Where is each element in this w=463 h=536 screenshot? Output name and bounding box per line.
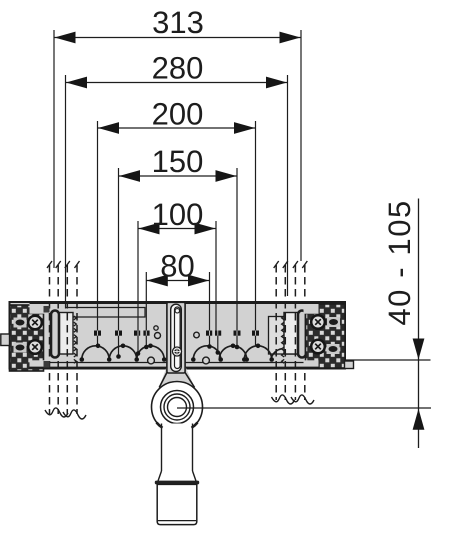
- svg-text:200: 200: [152, 96, 204, 131]
- stubs from marks to arcs: [98, 336, 256, 357]
- drain center leader line: [177, 407, 431, 409]
- dimension 150 line: [119, 175, 238, 177]
- slot top ring: [175, 309, 179, 313]
- svg-text:80: 80: [160, 249, 194, 284]
- dimension 100 extension lines: [137, 221, 139, 331]
- mounting rail body: [1, 261, 354, 419]
- supply pipe right 1 (dashed): [276, 265, 285, 400]
- slide slot: [175, 307, 181, 369]
- dimension 80 extension lines: [145, 272, 147, 331]
- right bracket capsule: [298, 311, 306, 358]
- down arrow: [413, 339, 425, 360]
- small index circles: [154, 326, 158, 330]
- drain pipe: [158, 424, 196, 482]
- slide plate: [171, 304, 182, 371]
- svg-text:150: 150: [152, 144, 204, 179]
- svg-text:40 - 105: 40 - 105: [382, 199, 417, 326]
- pipe break squiggles bottom: [45, 395, 314, 419]
- supply pipe left 2 (dashed): [67, 265, 77, 414]
- block-capsule connector tabs: [44, 306, 50, 368]
- clamp band: [155, 481, 199, 485]
- left panel serration: [74, 316, 77, 363]
- clamp arcs left: [82, 346, 164, 360]
- left flush box outline: [66, 308, 146, 318]
- dimension 280 line: [66, 82, 288, 84]
- left bracket capsule: [51, 311, 59, 358]
- fastening marks on rail: [94, 331, 259, 336]
- slide bracket flare fill: [159, 366, 195, 388]
- sleeve bottom line: [158, 520, 196, 522]
- sleeve: [157, 484, 197, 524]
- dimension 313 line: [54, 37, 301, 39]
- up arrow: [413, 409, 425, 430]
- dimension 100 line: [138, 228, 216, 230]
- upper reference line: [345, 359, 431, 361]
- drain fitting circles: [152, 382, 203, 433]
- right panel box: [269, 317, 301, 355]
- left end tab: [1, 334, 10, 346]
- rail inner track line: [45, 362, 306, 364]
- flare edges: [159, 373, 167, 388]
- right dimension 40-105: [345, 199, 431, 449]
- open circles on track: [148, 357, 155, 364]
- svg-text:313: 313: [152, 5, 204, 40]
- vertical dimension line: [418, 199, 420, 449]
- slide bracket: [167, 302, 185, 373]
- right wall bracket block: [306, 304, 346, 368]
- arc dots: [80, 344, 275, 362]
- svg-text:280: 280: [152, 50, 204, 85]
- clamp arcs right: [193, 346, 282, 360]
- dimension 313 extension lines: [53, 30, 55, 268]
- right panel serration: [282, 316, 285, 363]
- junction wedges: [157, 423, 163, 428]
- left panel plate: [58, 313, 73, 355]
- dimension 280 extension lines: [65, 75, 67, 309]
- right panel plate: [284, 313, 300, 355]
- dimension 150 extension lines: [118, 168, 120, 331]
- rail gray overlapping block corners: [30, 303, 319, 367]
- left wall bracket block: [10, 305, 44, 371]
- supply pipe right 2 (dashed): [295, 265, 304, 400]
- svg-text:100: 100: [152, 197, 204, 232]
- slide screw: [173, 347, 182, 356]
- dimension 200 line: [98, 127, 256, 129]
- dimensions top: [54, 5, 301, 330]
- central assembly: [152, 302, 432, 524]
- pipe break ticks top: [47, 261, 307, 268]
- right end tab: [345, 361, 354, 369]
- supply pipe left 1 (dashed): [50, 265, 59, 414]
- dimension 80 line: [146, 280, 209, 282]
- dimension 200 extension lines: [97, 121, 99, 331]
